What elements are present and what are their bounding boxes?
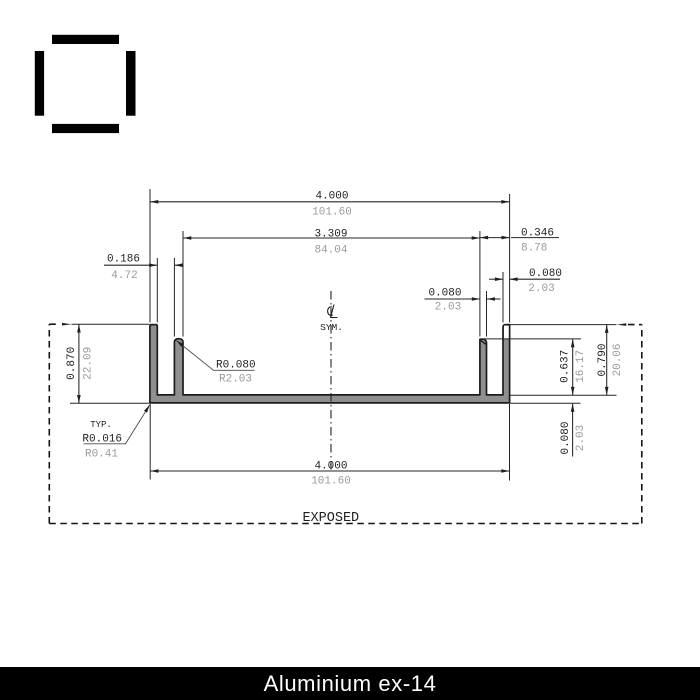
svg-text:22.09: 22.09 [82, 347, 94, 380]
svg-text:101.60: 101.60 [311, 476, 351, 488]
svg-text:TYP.: TYP. [90, 420, 112, 430]
svg-text:0.080: 0.080 [529, 268, 562, 280]
svg-text:R0.41: R0.41 [85, 449, 118, 461]
svg-text:2.03: 2.03 [435, 302, 461, 314]
svg-text:R0.016: R0.016 [82, 434, 122, 446]
svg-text:R0.080: R0.080 [216, 360, 256, 372]
svg-text:16.17: 16.17 [575, 350, 587, 383]
svg-text:84.04: 84.04 [314, 244, 347, 256]
svg-text:0.637: 0.637 [560, 350, 572, 383]
svg-text:101.60: 101.60 [312, 207, 352, 219]
svg-text:20.06: 20.06 [612, 343, 624, 376]
svg-text:0.080: 0.080 [560, 421, 572, 454]
svg-text:Aluminium ex-14: Aluminium ex-14 [264, 671, 437, 696]
svg-text:R2.03: R2.03 [219, 374, 252, 386]
svg-text:2.03: 2.03 [528, 283, 554, 295]
svg-text:4.000: 4.000 [315, 191, 348, 203]
svg-text:0.186: 0.186 [107, 254, 140, 266]
svg-text:0.080: 0.080 [428, 288, 461, 300]
svg-text:0.870: 0.870 [66, 347, 78, 380]
svg-text:0.790: 0.790 [597, 343, 609, 376]
svg-text:SYM.: SYM. [320, 322, 343, 333]
svg-text:3.309: 3.309 [314, 229, 347, 241]
svg-text:2.03: 2.03 [575, 425, 587, 451]
svg-text:0.346: 0.346 [521, 228, 554, 240]
svg-text:8.78: 8.78 [521, 242, 547, 254]
svg-text:4.72: 4.72 [111, 270, 137, 282]
svg-text:EXPOSED: EXPOSED [302, 511, 359, 526]
svg-text:4.000: 4.000 [314, 461, 347, 473]
